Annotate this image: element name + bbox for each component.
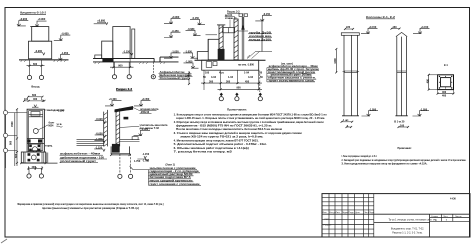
anchor bolts blobs <box>29 145 32 147</box>
scan artifact bottom-left <box>1 239 7 243</box>
svg-text:прочие [выносные] элементы при: прочие [выносные] элементы при расчетах … <box>42 207 139 210</box>
svg-text:Дата: Дата <box>355 212 361 214</box>
elevation mark left 3 <box>94 141 105 143</box>
column K-1 base line <box>342 115 359 117</box>
left grid verticals <box>329 194 374 237</box>
svg-text:+0.400: +0.400 <box>109 98 117 101</box>
K-1 left dim <box>428 75 430 90</box>
svg-text:-1.050: -1.050 <box>420 108 428 111</box>
bolt circle <box>33 129 38 134</box>
svg-text:-1.150: -1.150 <box>142 153 150 156</box>
dim line 600 <box>27 65 45 67</box>
svg-text:-1.800: -1.800 <box>185 61 193 64</box>
svg-text:4400: 4400 <box>334 58 337 64</box>
svg-text:4-04: 4-04 <box>211 76 217 79</box>
small dims below foundation <box>111 154 130 156</box>
svg-text:Стадия: Стадия <box>431 216 438 218</box>
leader to закладная <box>44 109 46 111</box>
left dim stack <box>188 71 190 84</box>
elevation mark -1.800 left 4 <box>184 63 199 68</box>
svg-text:Подп: Подп <box>349 212 355 214</box>
elevation mark right mid <box>164 32 181 37</box>
name cell divider <box>374 222 430 224</box>
anchor inner square <box>29 144 42 151</box>
svg-text:160: 160 <box>400 124 405 127</box>
svg-text:900: 900 <box>237 87 242 90</box>
svg-text:+0.900: +0.900 <box>38 18 46 21</box>
svg-text:торец: торец <box>45 145 53 148</box>
lower footing rect <box>29 41 52 59</box>
axis bubble 1 <box>27 75 31 79</box>
base rect wide <box>21 152 45 163</box>
axis bubbles <box>27 174 31 178</box>
svg-text:900: 900 <box>10 140 13 145</box>
svg-text:1. Конструкции опор и стоек те: 1. Конструкции опор и стоек теплотрассы … <box>174 113 327 116</box>
svg-text:3. Стыки и сварные швы закладн: 3. Стыки и сварные швы закладных деталей… <box>174 132 303 135</box>
svg-text:-0.020: -0.020 <box>141 128 149 131</box>
ground line <box>19 59 69 61</box>
inner anchor box <box>206 62 212 68</box>
elevation mark -1.150 at post base <box>122 53 133 55</box>
svg-text:Примечания:: Примечания: <box>227 108 247 112</box>
column K-2 elevation mark top <box>413 28 430 33</box>
axis lines <box>30 60 42 75</box>
svg-text:1-04: 1-04 <box>244 72 250 75</box>
elevation mark -1.050 right low <box>53 55 70 60</box>
svg-text:220: 220 <box>346 26 351 29</box>
inner top plate <box>31 112 40 117</box>
elevation mark left of cap <box>105 101 122 106</box>
svg-text:1500: 1500 <box>11 121 14 127</box>
K-1 section inner square <box>441 78 451 87</box>
svg-text:7. расход бетона на опору, м3: 7. расход бетона на опору, м3 <box>174 151 233 154</box>
svg-text:400: 400 <box>32 166 37 169</box>
svg-text:6. Объемы земляных работ подсч: 6. Объемы земляных работ подсчитаны в т.… <box>174 147 249 150</box>
svg-text:5. Дополнительный подсчет объе: 5. Дополнительный подсчет объемов работ … <box>174 143 267 146</box>
svg-text:Лист: Лист <box>364 212 369 214</box>
svg-text:400: 400 <box>442 91 447 94</box>
left step <box>95 55 102 58</box>
top band line <box>29 114 43 117</box>
thin post <box>242 17 244 60</box>
svg-text:2. Закладной узел подвижных и: 2. Закладной узел подвижных и неподвижны… <box>342 159 467 162</box>
full width row line <box>322 213 470 215</box>
svg-text:-1.050: -1.050 <box>61 52 69 55</box>
svg-text:-1.150: -1.150 <box>57 109 65 112</box>
pedestal rect <box>208 39 219 60</box>
svg-text:400: 400 <box>426 79 429 84</box>
elevation mark ±0.000 <box>95 135 106 137</box>
column K-1 splice joint <box>344 71 358 72</box>
svg-text:160: 160 <box>393 26 398 29</box>
svg-text:-1.700: -1.700 <box>142 159 150 162</box>
dashed line to bubble 3 <box>259 71 261 93</box>
elevation mark right top <box>164 18 181 23</box>
svg-text:-1.150: -1.150 <box>123 50 131 53</box>
svg-text:300: 300 <box>226 80 231 83</box>
dim line row 1 <box>201 82 262 84</box>
small block on pier <box>124 117 129 120</box>
svg-text:400: 400 <box>33 98 38 101</box>
svg-text:-0.050: -0.050 <box>96 132 104 135</box>
right section vertical <box>429 214 431 237</box>
svg-text:900: 900 <box>118 64 123 67</box>
svg-text:Изм: Изм <box>323 212 328 214</box>
svg-text:100: 100 <box>24 98 29 101</box>
svg-text:на отм.-1.800: на отм.-1.800 <box>238 63 255 66</box>
axis bubble 3 <box>151 75 155 79</box>
crossbar plate between posts <box>223 28 235 33</box>
floor slab right <box>120 140 140 142</box>
axis bubbles <box>219 97 223 101</box>
left level chain on frame <box>5 110 7 168</box>
svg-text:4. Металлоконструкции опор пок: 4. Металлоконструкции опор покрыть лаком… <box>174 139 259 142</box>
right section grid <box>430 218 470 222</box>
dim line row 2 : 900 <box>218 88 263 90</box>
top dim row 2 <box>24 100 44 102</box>
left dim line inner <box>14 113 16 166</box>
axis marker diamonds <box>220 93 223 97</box>
dashed reference line <box>152 62 154 75</box>
svg-text:Разрезы 1-1, 2-2, 3-3. Узлы.: Разрезы 1-1, 2-2, 3-3. Узлы. <box>392 232 423 235</box>
svg-text:После монтажа стоек колодцы за: После монтажа стоек колодцы замонолитить… <box>176 128 282 131</box>
svg-text:В 1-м 20: В 1-м 20 <box>394 121 405 124</box>
svg-text:-1.050: -1.050 <box>172 51 180 54</box>
svg-text:450: 450 <box>245 80 250 83</box>
collar bolts <box>28 139 31 142</box>
elevation mark -0.900 inside footing <box>34 53 45 55</box>
right jamb strip hatched <box>234 19 238 60</box>
extension lines <box>204 70 259 90</box>
svg-text:+0.150: +0.150 <box>369 26 377 29</box>
left dim line outer <box>16 109 18 166</box>
column K-1 elevation mark top <box>361 28 378 33</box>
svg-text:600: 600 <box>32 94 37 97</box>
axis bubble 2 <box>127 75 131 79</box>
footing box <box>202 60 259 70</box>
slab band <box>93 57 179 62</box>
thin post <box>132 29 135 58</box>
svg-text:-1.050: -1.050 <box>185 51 193 54</box>
svg-text:у.г.в.: у.г.в. <box>57 123 63 126</box>
svg-text:-0.150: -0.150 <box>192 17 200 20</box>
svg-text:Листов: Листов <box>455 216 462 218</box>
svg-text:-0.900: -0.900 <box>35 50 43 53</box>
wall cap line <box>217 24 225 26</box>
elevation mark -0.150 left 1 <box>190 19 205 24</box>
hatched slab block <box>102 59 113 62</box>
left grid horizontals bottom <box>322 219 374 233</box>
svg-text:4шт.: 4шт. <box>219 72 224 75</box>
upper pier rect <box>32 27 49 42</box>
axis bubble 1 <box>112 75 116 79</box>
elevation mark +0.900 top left <box>97 22 108 24</box>
collar band <box>27 139 44 144</box>
svg-text:4-04: 4-04 <box>248 76 254 79</box>
column K-2 lower dim <box>399 126 409 128</box>
anchor circle <box>32 147 37 152</box>
left grid horizontals top <box>322 198 374 210</box>
elevation mark right of cap <box>134 101 151 106</box>
svg-text:+4.150: +4.150 <box>421 26 429 29</box>
svg-text:1-04: 1-04 <box>228 76 234 79</box>
K-1 section outer square <box>438 75 454 90</box>
svg-text:600: 600 <box>33 63 38 66</box>
svg-text:эмали ХВ-124 по грунту ГФ-021: эмали ХВ-124 по грунту ГФ-021 за 2 раза,… <box>180 136 263 139</box>
svg-text:+0.900: +0.900 <box>97 20 105 23</box>
anchor boxes at post top <box>239 14 242 17</box>
elevation mark -0.450 left <box>17 21 28 26</box>
svg-text:100: 100 <box>205 72 210 75</box>
column K-1 dim above <box>345 28 353 30</box>
svg-text:М24: М24 <box>49 124 54 127</box>
svg-text:РД: РД <box>434 220 437 222</box>
ground slope right <box>256 51 273 53</box>
left block rect <box>102 41 113 58</box>
svg-text:+0.900: +0.900 <box>172 16 180 19</box>
elevation mark -0.680 left 2 <box>186 30 201 35</box>
title block outer <box>322 194 470 237</box>
svg-text:4-КЖ: 4-КЖ <box>450 197 457 200</box>
K-1 bottom dim <box>438 93 454 95</box>
dim line 900 below slab <box>114 58 131 67</box>
column K-2 splice joint <box>397 71 407 72</box>
svg-text:Лист: Лист <box>443 216 447 218</box>
svg-text:+0.900: +0.900 <box>19 18 27 21</box>
svg-text:1 шт.: 1 шт. <box>343 119 349 122</box>
column K-1 lower dim 2 <box>347 126 352 128</box>
insulation leader <box>120 126 139 127</box>
svg-text:Примечания:: Примечания: <box>398 147 412 150</box>
sloped cap plate (dark) <box>115 106 134 112</box>
svg-text:серии 1.400-15 вып. 1. Опорные: серии 1.400-15 вып. 1. Опорные плиты сто… <box>176 117 325 120</box>
top dim 600 <box>28 96 42 98</box>
column K-1 bottom dim <box>342 121 353 123</box>
svg-text:Фундаменты опор. Т-01, Т-02.: Фундаменты опор. Т-01, Т-02. <box>391 228 425 231</box>
svg-text:(Узел 1): (Узел 1) <box>166 163 176 166</box>
svg-text:150: 150 <box>185 75 190 78</box>
leader into drawing <box>130 166 149 170</box>
leader from circle <box>38 125 48 130</box>
baseline <box>195 59 266 61</box>
legend connector <box>266 68 268 82</box>
pier right wall hatched <box>116 108 120 146</box>
axis lines <box>115 62 130 75</box>
svg-text:-1.150: -1.150 <box>95 146 103 149</box>
svg-text:Колонны К-1, К-2: Колонны К-1, К-2 <box>366 15 396 19</box>
svg-text:+0.450: +0.450 <box>142 98 150 101</box>
leader wire <box>238 30 248 32</box>
svg-text:Разраб.: Разраб. <box>324 224 332 226</box>
small box on right slab <box>132 137 138 140</box>
pier left wall hatched <box>104 110 108 146</box>
axis bubble 2 <box>39 75 43 79</box>
column K-2 gable cap <box>396 32 407 36</box>
svg-text:ГИП: ГИП <box>325 219 330 221</box>
right edge line <box>261 21 263 52</box>
bottom dim row 2 <box>28 167 42 169</box>
column K-2 dim above <box>392 28 400 30</box>
outer shaft rect <box>27 109 44 152</box>
svg-text:-0.020: -0.020 <box>96 118 104 121</box>
svg-text:-1.050: -1.050 <box>369 108 377 111</box>
elevation mark -0.020 <box>95 121 106 123</box>
svg-text:Подп: Подп <box>369 212 375 214</box>
svg-text:Разрез 2-2: Разрез 2-2 <box>116 87 132 91</box>
axis lines <box>29 169 41 174</box>
elevation mark +0.900 top <box>30 21 47 26</box>
column K-2 body <box>397 37 407 116</box>
svg-text:3. Непосредственные нагрузки о: 3. Непосредственные нагрузки опор на фун… <box>342 163 428 166</box>
column K-1 body <box>344 35 358 116</box>
base center detail <box>31 155 36 160</box>
elevation mark right low <box>164 53 181 58</box>
svg-text:№док: №док <box>342 211 348 214</box>
dashed axis lines down <box>120 154 131 174</box>
base flange lines <box>23 152 44 163</box>
svg-text:Маркировка и привязка [основно: Маркировка и привязка [основной] опор ко… <box>18 203 164 206</box>
column K-2 elevation mark bottom <box>413 111 430 116</box>
main pier rect <box>113 27 130 59</box>
elevation mark right slab <box>134 130 151 135</box>
left wall hatched <box>219 25 223 60</box>
legend connector <box>148 170 150 186</box>
svg-text:Фундаменты Ф-1,Ф-2: Фундаменты Ф-1,Ф-2 <box>20 11 46 15</box>
column K-1 top plate <box>341 33 359 36</box>
svg-text:-0.450: -0.450 <box>172 30 180 33</box>
svg-text:-0.680: -0.680 <box>187 28 195 31</box>
inner shaft rect <box>29 111 43 151</box>
axis bubbles <box>118 174 122 178</box>
column K-1 elevation mark bottom <box>362 111 379 116</box>
elevation mark +0.150 right top <box>255 16 272 21</box>
bottom dim line <box>21 162 58 164</box>
foundation block <box>111 146 130 153</box>
svg-text:300: 300 <box>209 80 214 83</box>
column K-1 left dim <box>335 49 337 72</box>
K-1 rebar dots <box>439 76 440 77</box>
svg-text:1. Рамы опор приварены к закла: 1. Рамы опор приварены к закладной дет. … <box>342 155 378 158</box>
svg-text:600: 600 <box>15 153 18 158</box>
svg-text:400: 400 <box>442 95 447 98</box>
svg-text:стакан-01: стакан-01 <box>225 17 237 20</box>
svg-text:-0.150: -0.150 <box>263 13 271 16</box>
svg-text:Фасад: Фасад <box>31 85 40 89</box>
svg-text:фундаментов - В15 (М200) F75 W: фундаментов - В15 (М200) F75 W4 по ГОСТ … <box>176 125 272 128</box>
floor slab left <box>77 140 104 146</box>
dark hatched block <box>218 49 225 60</box>
column K-2 base line <box>395 115 407 117</box>
elevation mark -1.050 left 3 <box>183 53 198 58</box>
elevation mark -0.450 right mid <box>54 35 71 40</box>
svg-text:2. Обратную засыпку пазух котл: 2. Обратную засыпку пазух котлованов вып… <box>174 121 324 124</box>
foundation dark square <box>112 144 120 153</box>
svg-text:К-1: К-1 <box>444 64 448 67</box>
svg-text:1.: 1. <box>41 98 43 101</box>
svg-text:к.: к. <box>347 124 349 127</box>
svg-text:1.700: 1.700 <box>134 160 141 163</box>
svg-text:-0.450: -0.450 <box>61 33 69 36</box>
step profile <box>197 39 208 60</box>
svg-text:Разрез 3-3: Разрез 3-3 <box>227 9 240 13</box>
elevation tick symbol <box>34 105 37 107</box>
svg-text:Лист: Лист <box>336 212 341 214</box>
svg-text:Тр-са 1 очередь стр-ва, теплов: Тр-са 1 очередь стр-ва, тепловые сети <box>388 218 432 221</box>
leader to wall <box>206 34 218 36</box>
